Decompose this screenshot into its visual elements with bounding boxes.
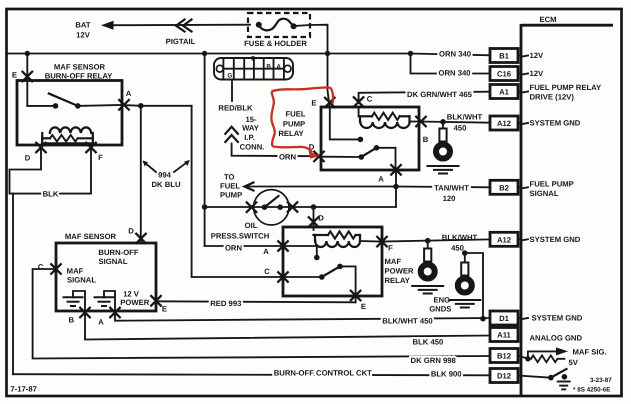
junction D tap on oil row [311,204,317,210]
svg-text:BAT: BAT [75,21,91,30]
svg-text:* 8S 4250-6E: * 8S 4250-6E [573,386,610,393]
svg-text:B: B [266,63,271,70]
wire A internal contact [283,246,317,255]
ring terminal ENG GND 2 [464,253,466,263]
pin D MAF sensor [135,233,146,244]
pin B2 ECM terminal FUEL PUMP SIGNAL [490,179,574,198]
annotation red circle FUEL PUMP RELAY [271,87,333,158]
svg-text:SIGNAL: SIGNAL [530,189,559,198]
junction TAN/WHT node [393,184,399,190]
pin A11 ECM terminal ANALOG GND [490,328,582,343]
wire ORN to fuel pump relay D [232,144,317,157]
pin B1 ECM terminal [490,49,544,63]
svg-text:A: A [126,89,132,98]
svg-text:12 V: 12 V [123,289,140,298]
wire BAT feed to fuse [112,24,250,27]
ECM module outline [521,15,613,396]
junction ring terminal tap [440,119,446,125]
svg-text:ANALOG GND: ANALOG GND [530,334,583,343]
svg-text:A: A [263,247,269,256]
pin A12 ECM terminal SYSTEM GND [490,116,581,130]
svg-text:E: E [361,302,366,311]
svg-text:BLK/WHT 450: BLK/WHT 450 [382,316,432,325]
svg-text:I.P.: I.P. [244,133,255,142]
svg-text:FUEL PUMP: FUEL PUMP [530,179,574,188]
svg-text:PIGTAIL: PIGTAIL [166,37,196,46]
15-way I.P. connector [214,55,293,79]
svg-text:A11: A11 [497,331,511,340]
svg-text:B: B [69,315,75,324]
junction at RED/BLK drop [202,51,207,56]
svg-text:D1: D1 [499,314,510,323]
svg-text:C: C [367,95,373,104]
svg-text:D: D [318,214,324,223]
node BAT 12V [75,21,113,40]
svg-text:D: D [25,154,31,163]
svg-text:BLK: BLK [43,190,59,199]
ring terminal ground below B [442,122,444,129]
junction D1 row and lug2 drop [480,316,486,322]
svg-text:ORN 340: ORN 340 [439,49,471,58]
svg-text:DK GRN/WHT 465: DK GRN/WHT 465 [407,90,473,99]
svg-text:ENG: ENG [433,295,450,304]
svg-text:BURN-OFF RELAY: BURN-OFF RELAY [45,71,113,80]
wire D internal [321,156,361,158]
svg-text:MAF: MAF [385,257,402,266]
svg-text:12V: 12V [530,51,545,60]
svg-text:BURN-OFF CONTROL CKT: BURN-OFF CONTROL CKT [274,369,372,378]
svg-text:B2: B2 [499,183,509,192]
sensor MAF SENSOR box [56,232,156,311]
svg-text:FUEL PUMP RELAY: FUEL PUMP RELAY [530,83,602,92]
wire pin G down (RED/BLK) [231,80,233,102]
resistor pull-up 5V [531,355,564,362]
coil fuel pump relay [360,122,409,128]
arrow MAF SIG. [556,347,568,355]
svg-text:A: A [98,317,104,326]
svg-text:RED 993: RED 993 [210,299,241,308]
pin D fuel pump relay [313,151,324,162]
svg-text:D12: D12 [497,372,511,381]
wire C to DK GRN 998 [33,269,490,359]
svg-text:SYSTEM GND: SYSTEM GND [530,235,581,244]
wire 12V row drop to oil pressure switch [204,54,206,247]
svg-text:MAF: MAF [67,266,84,275]
svg-text:ORN 340: ORN 340 [438,68,470,77]
relay MAF POWER RELAY box [283,227,382,296]
svg-text:994: 994 [158,171,172,180]
wire A to D1 BLK/WHT 450 [115,314,490,321]
svg-text:F: F [388,244,393,253]
svg-text:POWER: POWER [120,298,149,307]
svg-text:SIGNAL: SIGNAL [67,275,96,284]
svg-text:7-17-87: 7-17-87 [10,384,37,393]
wire TAN/WHT 120 to B2 [396,186,490,189]
svg-text:SYSTEM GND: SYSTEM GND [532,314,583,323]
label MAF POWER RELAY [385,257,414,285]
connector symbol PIGTAIL [166,20,196,47]
wire C down into coil node [358,107,360,116]
pin A burn-off relay [118,99,129,110]
resistor burn-off relay [42,133,93,143]
wire B to A12 BLK/WHT 450 [420,122,491,123]
junction at C16 branch [408,51,413,56]
connector left of oil switch [246,202,257,213]
wire B to A11 BLK 450 [85,314,490,340]
wire A node to verticals 994 [122,104,192,107]
svg-text:TAN/WHT: TAN/WHT [434,183,469,192]
ring terminal ENG GND 1 [427,241,429,249]
wire E feed from 12V node [328,54,330,108]
svg-text:ORN: ORN [225,243,243,252]
svg-text:SIGNAL: SIGNAL [98,257,127,266]
pin E MAF power relay [350,290,361,301]
wire RED 993 row [158,301,356,302]
svg-text:DK GRN 998: DK GRN 998 [411,356,457,365]
wire 12V distribution row [7,54,490,56]
svg-text:E: E [12,71,17,80]
wire D12 internal to switch [518,376,550,378]
pin B fuel pump relay [415,116,426,127]
svg-text:PUMP: PUMP [283,119,305,128]
svg-text:MAF SENSOR: MAF SENSOR [65,232,117,241]
ground internal at B [63,291,86,309]
wire A down to TAN junction [395,171,397,187]
svg-text:MAF SENSOR: MAF SENSOR [54,62,106,71]
svg-text:C: C [38,263,44,272]
svg-text:G: G [227,73,232,80]
svg-text:E: E [162,305,167,314]
svg-text:POWER: POWER [385,267,414,276]
switch internal burn-off control [548,369,567,380]
pin A fuel pump relay [390,164,401,175]
svg-text:ORN: ORN [279,152,297,161]
svg-text:GNDS: GNDS [429,304,451,313]
svg-text:TO: TO [224,173,235,182]
svg-text:D: D [128,227,134,236]
switch oil pressure [211,190,289,241]
pin B MAF sensor [79,307,90,318]
svg-text:C: C [264,267,270,276]
svg-text:WAY: WAY [242,124,259,133]
svg-text:C16: C16 [497,70,511,79]
resistor fuel pump relay [360,113,410,122]
svg-text:BLK/WHT: BLK/WHT [442,233,478,242]
pin F burn-off relay [85,142,96,153]
svg-text:5V: 5V [569,358,579,367]
wire ORN to pin A [205,245,283,247]
pin A MAF power relay [277,240,288,251]
pin C16 ECM terminal [490,67,544,81]
svg-text:F: F [98,153,103,162]
pin E MAF sensor [150,295,161,306]
svg-text:120: 120 [443,194,456,203]
switch contacts burn-off relay [27,94,122,109]
wire C to A1 DK GRN/WHT 465 [359,92,490,103]
relay MAF SENSOR BURN-OFF RELAY [17,62,122,145]
svg-text:E: E [311,99,316,108]
pin B12 ECM terminal MAF SIG [490,349,518,363]
relay FUEL PUMP RELAY box [321,107,419,170]
svg-text:450: 450 [454,124,467,133]
svg-text:A: A [378,175,384,184]
resistor MAF power relay [314,231,361,241]
pin A12 ECM terminal SYSTEM GND second [490,232,581,246]
coil MAF power relay [315,241,360,247]
wire to MAF SIG arrow [528,351,556,358]
pin C fuel pump relay [353,96,364,107]
label 994 DK BLU [143,160,190,189]
svg-text:RED/BLK: RED/BLK [218,103,253,112]
junction at burn-off relay E drop [25,51,30,56]
ground inside ECM at D12 [557,382,571,390]
svg-text:RELAY: RELAY [385,276,410,285]
wire D drop [313,207,315,230]
arrow TO FUEL PUMP [220,173,396,200]
pin D MAF power relay [308,216,319,227]
pin A MAF sensor [109,307,120,318]
wire D to left bus [10,148,42,194]
svg-text:MAF SIG.: MAF SIG. [573,348,607,357]
pin C MAF sensor [50,263,61,274]
junction eng gnd lug 1 [425,238,431,244]
wire E feed into burn-off relay [26,54,28,106]
junction oil switch row [202,204,208,210]
pin C MAF power relay [277,271,288,282]
svg-text:SYSTEM GND: SYSTEM GND [530,119,581,128]
svg-text:BURN-OFF: BURN-OFF [98,248,138,257]
wire coil node to pin B [410,121,420,123]
svg-text:FUSE & HOLDER: FUSE & HOLDER [244,39,307,48]
svg-text:FUEL: FUEL [220,182,240,191]
pin E burn-off relay [22,71,33,82]
connector symbol 15-way I.P. conn chevrons [225,127,238,142]
svg-text:RELAY: RELAY [278,129,303,138]
connector right of oil switch [287,201,298,212]
wire B12 internal node [518,356,528,359]
svg-text:450: 450 [451,243,464,252]
svg-text:3-23-87: 3-23-87 [590,377,612,384]
svg-text:BLK 450: BLK 450 [413,338,444,347]
svg-text:ECM: ECM [539,15,556,24]
wire F BLK to left bus [13,148,91,374]
pin D12 ECM terminal BURN-OFF control [490,369,518,383]
wire oil row to TAN junction [205,187,396,208]
pin D burn-off relay [35,142,46,153]
wire 994 DK BLU right drop to MAF power relay C [192,106,283,277]
svg-text:D: D [251,55,256,62]
svg-text:BLK 900: BLK 900 [431,369,462,378]
svg-text:OIL: OIL [245,221,258,230]
coil burn-off relay [50,127,91,133]
svg-text:CONN.: CONN. [240,143,265,152]
wire lug 2 to D1 row [465,253,483,319]
fuse F1 FUSE &amp; HOLDER [244,13,310,48]
pin E fuel pump relay [324,97,335,108]
pin A1 ECM terminal FUEL PUMP RELAY DRIVE [490,83,601,102]
svg-text:DRIVE (12V): DRIVE (12V) [530,93,575,102]
wire coil node to pin F [360,240,382,243]
svg-text:PUMP: PUMP [220,191,242,200]
wire branch to C16 [411,54,491,74]
svg-text:PRESS.SWITCH: PRESS.SWITCH [211,231,270,240]
svg-text:B12: B12 [497,352,511,361]
svg-text:12V: 12V [530,69,545,78]
junction B12 internal [525,356,530,361]
svg-text:A12: A12 [497,119,511,128]
ground internal at A [94,291,116,309]
junction A node [138,103,144,109]
wire 994 DK BLU left drop to MAF sensor D [140,106,142,244]
svg-text:A: A [276,63,281,70]
junction at fuse drop [325,51,330,56]
switch fuel pump relay internal [330,107,396,168]
svg-text:B: B [423,135,429,144]
svg-text:FUEL: FUEL [285,109,305,118]
svg-text:A12: A12 [497,235,511,244]
svg-text:BLK/WHT: BLK/WHT [447,113,483,122]
svg-text:12V: 12V [76,31,91,40]
svg-text:A1: A1 [499,88,510,97]
junction eng gnd lug 2 [462,250,468,256]
wire BLK 900 burn-off control to D12 [13,374,490,375]
svg-text:DK BLU: DK BLU [151,180,180,189]
pin D1 ECM terminal SYSTEM GND [490,311,583,325]
pin F MAF power relay [376,236,387,247]
wire fuse output to node [294,25,328,54]
wire F to A12 BLK/WHT 450 [382,239,490,241]
label 15-WAY I.P. CONN. [240,115,265,152]
switch MAF power relay internal [283,264,356,294]
svg-text:B1: B1 [499,52,510,61]
